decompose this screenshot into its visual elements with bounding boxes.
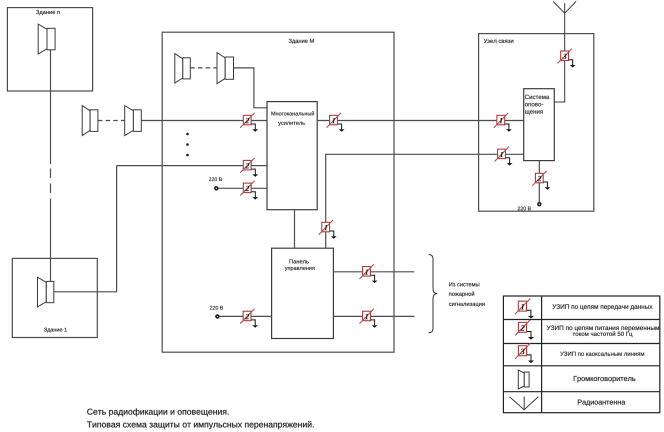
terminal dot 220V control panel — [216, 315, 219, 318]
surge protector УЗИП 1 node wire 1 — [494, 113, 512, 132]
surge protector УЗИП 3 on antenna feeder — [558, 49, 576, 68]
label "Узел связи" — [484, 39, 514, 43]
loudspeaker top pair right (inside building M) — [217, 53, 234, 84]
legend symbol УЗИП 3 — [515, 343, 534, 363]
surge protector УЗИП 1 on lower fire alarm wire — [360, 309, 378, 328]
ellipsis dots for more lines — [186, 133, 189, 157]
label "Здание M" — [289, 39, 314, 44]
control panel box — [272, 248, 334, 338]
note line "Из системы" — [449, 282, 479, 286]
label "усилитель" — [278, 122, 305, 126]
wire amplifier bottom to control panel — [294, 210, 296, 249]
label "220 В" at amplifier — [209, 177, 222, 181]
label "опово-" — [525, 103, 543, 106]
loudspeaker pair left outer — [82, 106, 98, 136]
note line "пожарной" — [449, 292, 474, 297]
label "управления" — [285, 267, 315, 271]
legend symbol УЗИП 1 — [515, 299, 534, 319]
curly brace — [429, 255, 438, 333]
building box "Здание M" — [162, 32, 394, 352]
wire branch to control panel and node — [326, 154, 524, 248]
surge protector УЗИП 1 at amplifier output — [327, 113, 345, 132]
loudspeaker in building n — [38, 24, 55, 54]
fire alarm wire upper — [333, 271, 414, 273]
building box "Здание n" — [7, 8, 92, 91]
surge protector УЗИП 2 on speaker line — [240, 113, 258, 132]
caption line 1 — [87, 408, 228, 416]
surge protector УЗИП 2 on trunk line — [240, 158, 258, 177]
label "щения" — [525, 110, 543, 114]
loudspeaker pair left inner — [125, 106, 142, 136]
label "220 В" at control panel — [210, 306, 223, 310]
legend text row 1 — [552, 304, 652, 310]
building box "Здание 1" — [12, 258, 97, 337]
wire from top speaker pair to amplifier input — [234, 68, 268, 108]
notification system box — [524, 89, 555, 161]
legend text row 5 — [578, 400, 625, 406]
loudspeaker top pair left (inside building M) — [175, 54, 191, 84]
caption line 2 — [87, 421, 314, 429]
label "220 В" at node — [518, 207, 531, 211]
wire dashed continuation segment — [50, 169, 52, 195]
legend symbol УЗИП 2 — [515, 320, 534, 340]
radio antenna — [553, 1, 576, 102]
wire from left speaker pair to amplifier — [141, 120, 267, 122]
legend table frame — [503, 296, 659, 413]
fire alarm wire lower — [333, 315, 414, 317]
label "Панель" — [290, 259, 309, 263]
legend radio antenna symbol — [510, 397, 539, 410]
legend loudspeaker symbol — [518, 370, 529, 389]
dashed link between left speaker pair — [98, 120, 125, 122]
terminal dot 220V node — [538, 203, 541, 206]
wire 220V to control panel — [219, 315, 272, 317]
label "Многоканальный" — [271, 111, 314, 115]
legend text row 2a — [547, 326, 659, 332]
wire from building 1 speaker right then up to trunk — [54, 166, 117, 292]
legend text row 2b — [573, 331, 633, 337]
surge protector УЗИП 1 node wire 2 — [495, 147, 513, 166]
label "Здание 1" — [44, 328, 67, 333]
terminal dot 220V amplifier — [215, 187, 218, 190]
dashed link between top speaker pair — [190, 67, 217, 69]
legend text row 3 — [560, 352, 644, 356]
wire solid to building 1 speaker — [50, 199, 52, 282]
wire trunk line to amplifier at y=165.6 — [117, 165, 267, 167]
amplifier box — [267, 102, 317, 210]
wire amplifier output to notification system — [317, 120, 524, 122]
surge protector УЗИП 2 under notification system — [532, 171, 550, 190]
legend text row 4 — [574, 376, 636, 383]
note line "сигнализации" — [449, 303, 485, 307]
loudspeaker in building 1 — [38, 277, 54, 307]
surge protector УЗИП 2 on amplifier 220V line — [240, 181, 258, 200]
wire from speaker in building n down (solid top) — [50, 50, 52, 164]
surge protector УЗИП 2 on panel 220V line — [240, 309, 258, 328]
wire notification system to 220V — [538, 161, 540, 203]
surge protector УЗИП 1 on vertical branch — [319, 220, 337, 239]
communication node box "Узел связи" — [479, 34, 594, 212]
surge protector УЗИП 1 on upper fire alarm wire — [360, 264, 378, 283]
label "Система" — [525, 95, 549, 99]
label "Здание n" — [36, 10, 60, 15]
wire 220V to amplifier — [218, 187, 267, 189]
